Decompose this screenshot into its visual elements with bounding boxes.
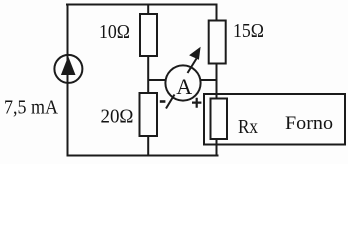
wire ammeter right bbox=[199, 79, 217, 81]
current source I1 circle bbox=[54, 55, 82, 83]
wire middle branch bbox=[147, 4, 149, 157]
ammeter polarity minus bbox=[160, 100, 166, 103]
current source arrow bbox=[61, 56, 76, 75]
wire left rail bbox=[67, 4, 69, 157]
ammeter polarity plus bbox=[192, 98, 201, 108]
svg-text:10Ω: 10Ω bbox=[99, 21, 130, 43]
svg-text:Rx: Rx bbox=[238, 116, 258, 138]
svg-text:7,5 mA: 7,5 mA bbox=[4, 97, 59, 119]
resistor R1 10ohm body bbox=[140, 14, 157, 56]
wire top bbox=[66, 4, 218, 6]
ammeter needle upper segment bbox=[188, 59, 197, 74]
resistor R2 20ohm body bbox=[140, 93, 158, 136]
ammeter A1 circle bbox=[165, 65, 200, 100]
wire bottom bbox=[67, 155, 219, 157]
furnace box Forno bbox=[204, 94, 345, 145]
resistor Rx body bbox=[211, 99, 228, 140]
wire right branch bbox=[216, 4, 218, 157]
svg-text:20Ω: 20Ω bbox=[101, 105, 134, 127]
ammeter needle arrowhead bbox=[189, 47, 201, 60]
wire ammeter left bbox=[148, 79, 167, 81]
ammeter needle lower segment bbox=[166, 95, 175, 109]
svg-text:15Ω: 15Ω bbox=[233, 20, 264, 42]
svg-text:Forno: Forno bbox=[285, 113, 333, 134]
resistor R3 15ohm body bbox=[209, 21, 226, 64]
svg-text:A: A bbox=[176, 74, 192, 99]
